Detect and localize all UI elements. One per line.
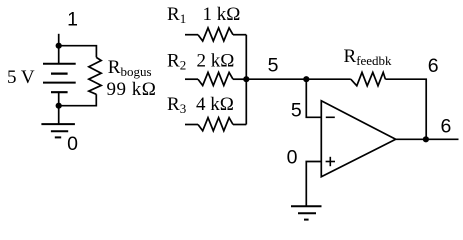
junction node 5 xyxy=(303,76,309,82)
svg-text:2 kΩ: 2 kΩ xyxy=(197,51,235,72)
wire xyxy=(185,124,198,126)
wire xyxy=(185,78,198,80)
svg-text:4 kΩ: 4 kΩ xyxy=(196,94,234,115)
junction node 1 xyxy=(56,43,62,49)
wire xyxy=(58,34,60,46)
wire xyxy=(306,78,351,80)
wire xyxy=(58,106,60,124)
wire xyxy=(306,162,321,207)
svg-text:Rfeedbk: Rfeedbk xyxy=(344,46,393,68)
svg-text:R2: R2 xyxy=(167,51,186,73)
resistor Rfeedbk xyxy=(351,72,386,85)
resistor R2 xyxy=(198,72,233,85)
battery V1 5 V xyxy=(43,46,76,106)
wire xyxy=(385,79,426,139)
svg-text:0: 0 xyxy=(67,133,78,155)
junction node 5 xyxy=(243,76,249,82)
junction node 0 xyxy=(56,103,62,109)
junction node 6 xyxy=(423,136,429,142)
resistor Rbogus xyxy=(89,57,101,94)
svg-text:Rbogus: Rbogus xyxy=(108,57,152,79)
wire xyxy=(246,78,306,80)
wire xyxy=(396,138,459,140)
svg-text:R3: R3 xyxy=(167,94,186,116)
wire xyxy=(306,79,321,117)
svg-text:6: 6 xyxy=(440,116,451,138)
ground xyxy=(291,206,322,219)
svg-text:0: 0 xyxy=(287,147,298,169)
svg-text:6: 6 xyxy=(428,55,439,77)
op-amp U1 xyxy=(321,101,395,177)
wire xyxy=(59,46,97,58)
resistor R1 xyxy=(198,28,233,41)
resistor R3 xyxy=(198,118,233,131)
wire xyxy=(185,34,198,36)
wire xyxy=(233,124,246,126)
svg-text:1: 1 xyxy=(67,9,78,31)
svg-text:R1: R1 xyxy=(167,4,186,26)
wire xyxy=(233,34,246,36)
svg-text:99 kΩ: 99 kΩ xyxy=(107,79,157,100)
ground xyxy=(41,124,75,137)
svg-text:1 kΩ: 1 kΩ xyxy=(203,4,241,25)
wire xyxy=(59,94,97,105)
wire xyxy=(233,78,246,80)
bus wire xyxy=(245,35,247,125)
svg-text:5 V: 5 V xyxy=(7,67,35,88)
svg-text:5: 5 xyxy=(268,55,279,77)
svg-text:5: 5 xyxy=(291,100,302,122)
